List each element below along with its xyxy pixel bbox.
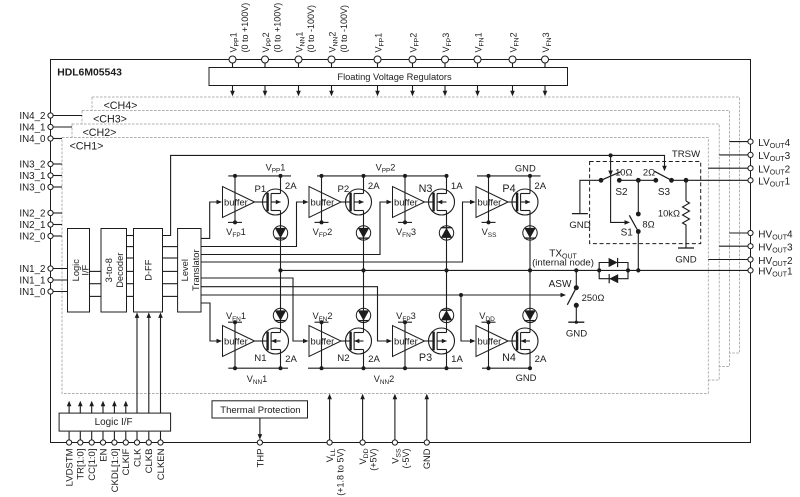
junction TXOUT — [626, 268, 630, 272]
pin IN2_2 (left) — [19, 209, 62, 220]
wire gate lead N3 — [425, 201, 433, 203]
diode DP3 — [439, 308, 453, 322]
svg-text:buffer: buffer — [311, 196, 335, 207]
svg-text:TR[1:0]: TR[1:0] — [76, 449, 87, 480]
svg-text:10kΩ: 10kΩ — [658, 208, 680, 219]
svg-text:IN2_0: IN2_0 — [19, 232, 46, 243]
pin CLKIF (bottom) — [121, 432, 132, 476]
block Logic I/F (left column) — [68, 229, 91, 313]
pin CLK (bottom) — [132, 432, 143, 467]
svg-text:CC[1:0]: CC[1:0] — [87, 449, 98, 481]
pin IN3_1 (left) — [19, 171, 62, 182]
junction TXOUT — [361, 268, 365, 272]
pin IN2_0 (left) — [19, 232, 62, 243]
pin IN1_2 (left) — [19, 264, 67, 275]
svg-text:3-to-8: 3-to-8 — [104, 258, 114, 282]
wires CLK/CLKB/CLKEN to D-FF — [135, 312, 163, 413]
svg-text:buffer: buffer — [394, 335, 418, 346]
pin CLKB (bottom) — [144, 432, 155, 474]
svg-text:IN2_1: IN2_1 — [19, 220, 45, 231]
pin HVOUT1 (right) — [748, 267, 793, 279]
wire column 2 (P2/N2 output) — [363, 176, 365, 368]
svg-text:IN4_1: IN4_1 — [19, 123, 45, 134]
resistor 10k — [678, 180, 694, 248]
wire column 1 (P1/N1 output) — [280, 176, 282, 368]
ground (ASW) — [566, 321, 587, 340]
transistor N3 — [428, 189, 454, 215]
diode DP2 — [356, 226, 370, 240]
svg-text:P4: P4 — [502, 183, 515, 195]
buffer U2 (drives P2) — [309, 176, 341, 225]
svg-text:GND: GND — [566, 328, 587, 339]
channel card CH3 — [82, 111, 729, 367]
junction 10k — [684, 178, 689, 183]
switch S3 — [653, 171, 674, 182]
svg-text:IN3_1: IN3_1 — [19, 171, 45, 182]
buffer U7 (drives P3) — [393, 320, 425, 368]
svg-text:CLK: CLK — [132, 448, 143, 467]
svg-text:P2: P2 — [338, 184, 350, 195]
pin HVOUT3 (right) — [719, 243, 793, 255]
pin VFN1 (top) — [473, 32, 485, 96]
svg-text:Logic I/F: Logic I/F — [95, 417, 133, 428]
svg-text:GND: GND — [675, 254, 696, 265]
rail GND (bottom, N4) — [482, 366, 532, 370]
wire gate lead N1 — [255, 340, 267, 342]
svg-text:P1: P1 — [255, 184, 267, 195]
wire LT drive to N2 buffer — [201, 278, 305, 341]
pin VPP1 (top) — [228, 3, 250, 97]
switch ASW — [567, 285, 579, 308]
wire gate lead P3 — [425, 340, 433, 342]
pin THP — [255, 418, 266, 468]
svg-text:S1: S1 — [621, 228, 634, 239]
diode DN4 — [523, 308, 537, 322]
rail VPP1 — [228, 174, 291, 178]
svg-text:buffer: buffer — [224, 196, 248, 207]
buffer U6 (drives N2) — [309, 320, 341, 368]
buffer U5 (drives N1) — [223, 320, 255, 368]
pin GND (bottom power) — [422, 394, 432, 469]
pin HVOUT2 (right) — [708, 256, 793, 268]
diode DP1 (points right) — [609, 258, 618, 267]
svg-text:2A: 2A — [285, 181, 297, 192]
pin VFP3 (top) — [441, 33, 453, 97]
svg-text:2Ω: 2Ω — [643, 167, 655, 178]
svg-text:(+5V): (+5V) — [369, 449, 379, 471]
svg-text:IN1_0: IN1_0 — [19, 287, 46, 298]
pin VFP1 (top) — [373, 33, 385, 97]
wire TXOUT internal node line (to HVOUT1) — [281, 269, 749, 271]
wire S3 to LVOUT1 — [672, 179, 749, 181]
pin CC[1:0] (bottom) — [87, 432, 98, 481]
rail GND (top, P4) — [477, 174, 541, 178]
wire LT drive to P2 buffer — [201, 202, 305, 247]
svg-text:2A: 2A — [285, 354, 297, 365]
wire TRSW control from D-FF — [163, 155, 665, 235]
pin VNN1 (top) — [294, 5, 316, 96]
svg-text:P3: P3 — [419, 352, 432, 364]
svg-text:<CH3>: <CH3> — [93, 113, 127, 125]
svg-text:LVDSTM: LVDSTM — [65, 448, 76, 486]
wires D-FF to Level Translator — [163, 247, 178, 297]
rail VNN1 — [228, 366, 288, 370]
wire S1 branch — [637, 180, 639, 214]
wire S1 to TXOUT — [637, 232, 639, 271]
junction TXOUT — [597, 268, 601, 272]
svg-text:IN2_2: IN2_2 — [19, 209, 45, 220]
svg-text:IN3_2: IN3_2 — [19, 160, 45, 171]
pin HVOUT4 (right) — [729, 229, 793, 241]
buffer U3 (drives N3) — [393, 176, 425, 225]
channel card CH1 — [62, 138, 708, 394]
wire LT drive to P1 buffer — [201, 202, 218, 238]
transistor P2 — [345, 189, 371, 215]
svg-text:GND: GND — [422, 448, 432, 469]
junction control branch — [609, 153, 613, 157]
svg-text:IN4_0: IN4_0 — [19, 134, 46, 145]
wire column 3 (N3/P3 output) — [446, 176, 448, 368]
wires Decoder to D-FF — [127, 236, 134, 297]
svg-text:buffer: buffer — [478, 196, 502, 207]
svg-text:GND: GND — [569, 220, 590, 231]
pin IN4_1 (left) — [19, 123, 72, 134]
svg-text:10Ω: 10Ω — [615, 167, 632, 178]
junction TXOUT — [574, 268, 578, 272]
block Level Translator — [178, 229, 201, 313]
pin IN4_0 (left) — [19, 134, 62, 145]
svg-text:2A: 2A — [368, 354, 380, 365]
junction TXOUT — [636, 268, 640, 272]
svg-text:S3: S3 — [658, 187, 671, 198]
svg-text:buffer: buffer — [394, 196, 418, 207]
pin LVDSTM (bottom) — [65, 432, 76, 487]
pin LVOUT3 (right) — [719, 151, 790, 163]
wires Logic I/F to Decoder — [90, 271, 102, 296]
svg-text:(0 to +100V): (0 to +100V) — [240, 3, 250, 53]
svg-text:2A: 2A — [534, 181, 546, 192]
svg-text:CLKEN: CLKEN — [156, 448, 167, 480]
svg-text:CLKIF: CLKIF — [121, 448, 132, 475]
svg-text:IN3_0: IN3_0 — [19, 183, 46, 194]
svg-text:CLKB: CLKB — [144, 449, 155, 474]
svg-text:TRSW: TRSW — [672, 149, 701, 160]
svg-text:Floating Voltage Regulators: Floating Voltage Regulators — [337, 72, 452, 82]
rail VPP2 — [317, 174, 449, 178]
buffer U8 (drives N4) — [476, 320, 508, 368]
svg-text:N3: N3 — [419, 183, 433, 195]
svg-text:Thermal Protection: Thermal Protection — [220, 405, 300, 416]
svg-text:N2: N2 — [337, 353, 349, 364]
wire LT drive to N1 buffer — [201, 303, 218, 341]
svg-text:IN4_2: IN4_2 — [19, 111, 45, 122]
svg-text:IN1_2: IN1_2 — [19, 264, 45, 275]
svg-text:CKDL[1:0]: CKDL[1:0] — [110, 449, 121, 493]
svg-text:(internal node): (internal node) — [532, 258, 594, 269]
svg-text:(-5V): (-5V) — [401, 448, 411, 468]
wire LT drive to P3 buffer — [201, 287, 389, 341]
svg-text:Level: Level — [180, 259, 190, 281]
svg-text:IN1_1: IN1_1 — [19, 276, 45, 287]
wire 10ohm segment — [619, 179, 656, 181]
pin VSS (bottom power) — [390, 394, 411, 469]
svg-text:2A: 2A — [535, 354, 547, 365]
pin LVOUT1 (right) — [748, 177, 791, 189]
buffer U4 (drives P4) — [476, 176, 508, 225]
svg-text:<CH2>: <CH2> — [83, 127, 117, 139]
wire ASW to ground — [575, 305, 577, 322]
svg-text:(+1.8 to 5V): (+1.8 to 5V) — [336, 449, 346, 496]
svg-text:N1: N1 — [254, 353, 266, 364]
diode DN1 — [273, 308, 287, 322]
wire LT drive to P4 buffer — [201, 202, 472, 262]
svg-text:250Ω: 250Ω — [582, 292, 605, 303]
diode DP1 — [273, 226, 287, 240]
svg-text:1A: 1A — [451, 354, 463, 365]
arrows Logic I/F up into CH1 — [67, 401, 128, 413]
wire TXOUT to ASW — [575, 270, 577, 287]
svg-text:buffer: buffer — [224, 335, 248, 346]
svg-text:I/F: I/F — [81, 264, 91, 275]
svg-text:HDL6M05543: HDL6M05543 — [57, 67, 122, 78]
wire gate lead N2 — [341, 340, 350, 342]
buffer U1 (drives P1) — [223, 176, 255, 225]
svg-text:Decoder: Decoder — [115, 253, 125, 288]
transistor P1 — [262, 189, 288, 215]
svg-text:Translator: Translator — [191, 249, 201, 291]
block 3-to-8 Decoder — [101, 229, 127, 313]
pin LVOUT4 (right) — [729, 138, 790, 150]
pin IN1_0 (left) — [19, 287, 67, 298]
pin VFP2 (top) — [408, 33, 420, 97]
box Logic I/F (bottom) — [59, 413, 171, 431]
transistor P4 — [512, 189, 538, 215]
wire gate lead P4 — [508, 201, 516, 203]
svg-text:buffer: buffer — [478, 335, 502, 346]
block D-FF — [134, 229, 163, 313]
svg-text:THP: THP — [255, 449, 266, 468]
diode pair loop — [599, 263, 628, 279]
pin CLKEN (bottom) — [156, 432, 167, 481]
wire LT drive to N3 buffer — [201, 202, 389, 255]
pin IN3_2 (left) — [19, 160, 62, 171]
svg-text:(0 to -100V): (0 to -100V) — [339, 5, 349, 53]
pin VLL (bottom power) — [325, 394, 346, 496]
pin IN2_1 (left) — [19, 220, 62, 231]
svg-text:(0 to +100V): (0 to +100V) — [273, 3, 283, 53]
pin VNN2 (top) — [327, 5, 349, 96]
svg-text:D-FF: D-FF — [144, 259, 154, 280]
wire gate lead P1 — [255, 201, 267, 203]
pin IN1_1 (left) — [19, 276, 67, 287]
junction S1 branch — [636, 178, 641, 183]
svg-text:GND: GND — [516, 372, 537, 383]
pin VDD (bottom power) — [358, 394, 379, 471]
junction TXOUT — [278, 268, 282, 272]
diode DN3 — [439, 226, 453, 240]
channel card CH4 — [92, 97, 739, 353]
wire column 4 (P4/N4 output) — [529, 176, 531, 368]
svg-text:2A: 2A — [368, 181, 380, 192]
svg-text:ASW: ASW — [549, 279, 572, 290]
svg-text:GND: GND — [515, 163, 536, 174]
pin VFN2 (top) — [508, 32, 520, 96]
diode DP4 — [523, 226, 537, 240]
svg-text:S2: S2 — [615, 187, 628, 198]
pin EN (bottom) — [98, 432, 109, 462]
pin VPP2 (top) — [261, 3, 283, 97]
svg-text:(0 to -100V): (0 to -100V) — [306, 5, 316, 53]
svg-text:1A: 1A — [451, 181, 463, 192]
pin VFN3 (top) — [541, 32, 553, 96]
switch S1 — [629, 212, 640, 234]
box Floating Voltage Regulators — [209, 68, 568, 86]
svg-text:N4: N4 — [502, 352, 516, 364]
junction TXOUT — [444, 268, 448, 272]
switch S2 — [599, 172, 622, 183]
svg-text:buffer: buffer — [311, 335, 335, 346]
wire gate lead N4 — [508, 340, 516, 342]
pin IN3_0 (left) — [19, 183, 62, 194]
wire LT drive to N4 buffer and ASW control — [201, 294, 563, 296]
box TRSW (dashed) — [590, 162, 701, 244]
svg-text:<CH1>: <CH1> — [70, 140, 104, 152]
pin CKDL[1:0] (bottom) — [110, 432, 121, 493]
transistor N2 — [345, 328, 371, 354]
svg-text:EN: EN — [98, 448, 109, 461]
wire gate lead P2 — [341, 201, 350, 203]
transistor P3 — [428, 328, 454, 354]
svg-text:<CH4>: <CH4> — [104, 100, 138, 112]
transistor N4 — [512, 328, 538, 354]
box Thermal Protection — [212, 401, 308, 418]
chip outline HDL6M05543 — [51, 60, 751, 443]
pin IN4_2 (left) — [19, 111, 82, 122]
rail VNN2 — [308, 366, 462, 370]
wire S2/S1 control branch — [611, 155, 627, 222]
wire main line left segment + ground drop — [572, 180, 601, 213]
pin TR[1:0] (bottom) — [76, 432, 87, 480]
diode DP2 (points left) — [609, 274, 618, 283]
svg-text:Logic: Logic — [71, 259, 81, 282]
diode DN2 — [356, 308, 370, 322]
transistor N1 — [262, 328, 288, 354]
junction TXOUT — [528, 268, 532, 272]
pin LVOUT2 (right) — [708, 165, 790, 177]
channel card CH2 — [72, 124, 719, 380]
svg-text:8Ω: 8Ω — [642, 219, 654, 230]
